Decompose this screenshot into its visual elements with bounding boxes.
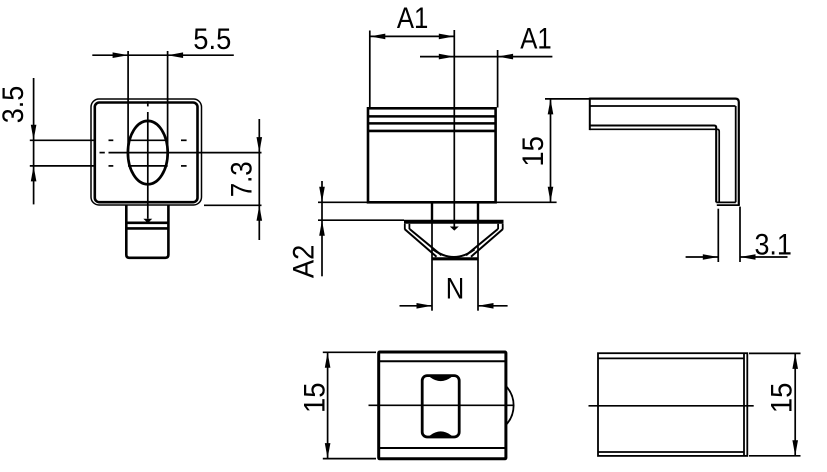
view3 arm bottom line 1 [590,126,716,203]
svg-text:15: 15 [517,136,550,167]
view3 leg bottom inner line [716,201,736,203]
view2 neck / N extension line right [477,204,479,311]
view2 body outline [368,108,496,202]
view4 body outline [379,352,506,459]
view1 horizontal centerline (extends to 7.3 dim) [100,152,105,154]
view2 centerline end tick [451,227,457,230]
view1 tab groove line lower [125,227,169,230]
dim A2 dimension line with outside arrows [321,181,323,276]
view4 horizontal centerline [369,404,514,406]
view2 spring right inner flank [466,229,498,255]
dim N dimension line with outside arrows [400,305,433,307]
view3 left end cap [589,98,591,131]
dim A1-1 dimension line [370,35,455,37]
view2 spring left lip [404,224,406,230]
view2 spring right outer flank [471,229,503,256]
view4 slot top thread arc [431,377,451,381]
view2 top groove line 1 [368,115,496,118]
view3 arm bottom line 2 [590,129,719,202]
dim 15 view5 extension lines [749,352,801,354]
dim 15 top extension line (from view3) [545,98,590,100]
dim 15 view4 dimension line [327,352,329,458]
view2 neck / N extension line left [431,204,433,311]
dim 5.5 dimension line with outside arrows [92,54,234,56]
view1 upper feature centerline 3.5 (dashed) [30,139,95,141]
svg-text:5.5: 5.5 [193,23,231,56]
dim 5.5 extension line left [127,51,129,153]
svg-text:A1: A1 [397,2,429,35]
view3 inner top edge [590,105,736,107]
view1 lower feature centerline 3.5 (dashed) [30,165,95,167]
view4 bottom edge inner line [379,447,506,449]
view1 oval slot hole [128,121,168,184]
view1 centerline end tick [145,219,151,222]
view2 spring left outer flank [405,229,437,256]
svg-text:A1: A1 [520,22,552,55]
view1 tab groove line upper [125,222,169,225]
view3 outer top edge with rounded right corner [590,99,739,205]
dim 15 dimension line [550,99,552,202]
svg-text:15: 15 [765,383,798,414]
view4 slot bottom thread arc [431,432,451,436]
view3 leg bottom outer line [717,204,740,206]
dim 3.5 dimension line vertical [33,78,35,204]
view2 top groove line 2 [368,122,496,125]
view5 bottom inner line [598,451,744,453]
view1 outer body outline [91,99,202,205]
view2 vertical centerline [453,30,455,227]
view2 A2 lower extension line [318,219,404,221]
view2 spring left inner flank [410,229,442,255]
dim A1-1 extension line left [369,31,371,108]
view4 top edge inner line [379,360,506,362]
view2 top groove line 3 [368,130,496,133]
view5 top inner line [598,357,744,359]
svg-text:N: N [446,272,465,305]
svg-text:3.5: 3.5 [0,86,30,124]
view2 spring top plate [404,220,504,224]
view3 inner right vertical [735,106,737,202]
svg-text:3.1: 3.1 [754,229,792,262]
dim 3.1 extension line left [717,209,719,262]
view1 inner body outline [95,103,198,203]
view5 horizontal centerline [589,405,754,407]
view2 spring bottom arc [433,250,475,258]
dim 7.3 dimension line vertical with outside arrows [258,119,260,240]
dim 3.1 dimension line with outside arrows [686,256,719,258]
dim 3.1 extension line right [739,207,741,262]
dim 5.5 extension line right [167,51,169,153]
dim 15 view4 extension lines [323,351,376,353]
dim 15 view5 dimension line [794,353,796,455]
view4 slot rounded rect [422,376,459,437]
dim A1-2 extension line right [497,50,499,108]
view5 body outline [598,353,747,456]
view1 vertical centerline [147,101,149,106]
svg-text:15: 15 [299,382,332,413]
view2 spring right lip [502,224,504,230]
dim A1-2 dimension line with outside arrows [420,56,552,58]
svg-text:A2: A2 [287,245,320,279]
svg-text:7.3: 7.3 [226,161,259,197]
dim 7.3 bottom extension line [204,204,262,206]
view2 spring bottom edge [432,257,478,260]
view4 right spring bulge arc [506,386,514,425]
view1 bottom tab outline [126,206,168,258]
view5 right inner vertical [743,353,745,456]
view2 body bottom edge extensions left/right [318,201,368,203]
